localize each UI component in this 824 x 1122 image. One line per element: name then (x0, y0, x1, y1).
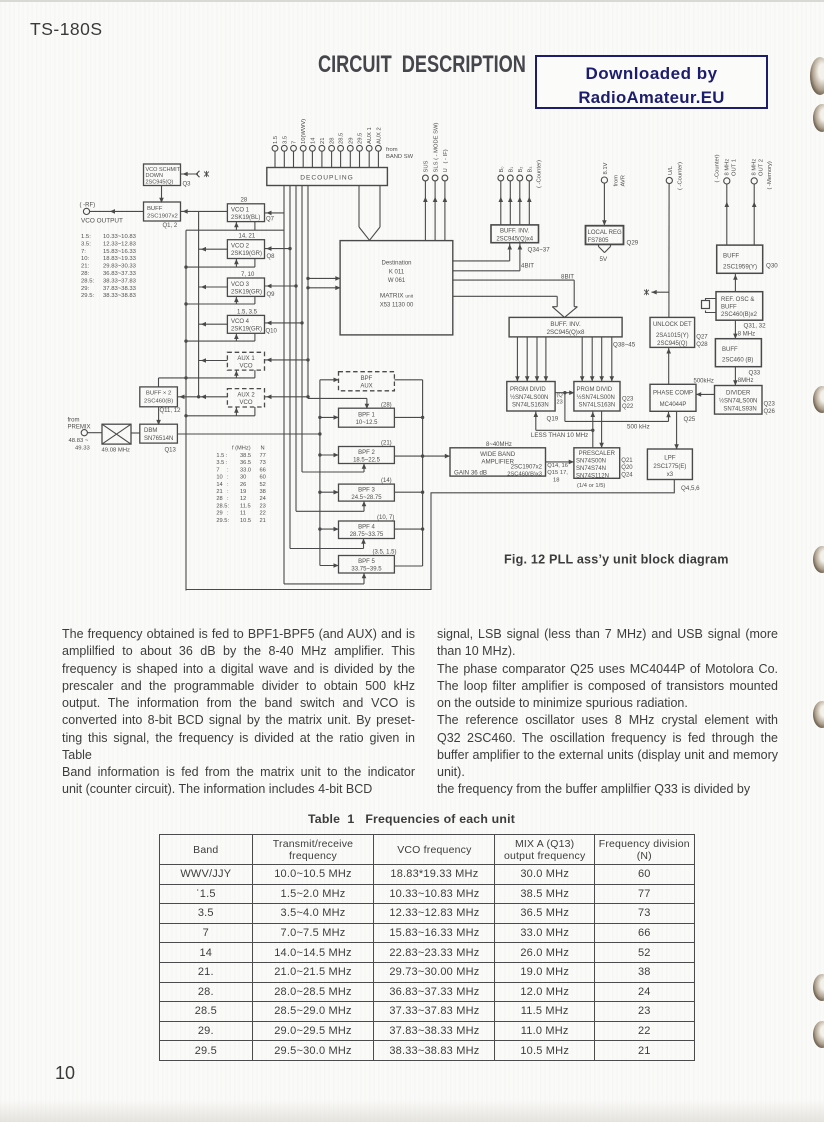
svg-text:UNLOCK DET: UNLOCK DET (653, 322, 692, 328)
svg-text:Destination: Destination (381, 261, 411, 267)
wire: buffer x2 to DBM (158, 407, 160, 424)
svg-text:2SC460(B): 2SC460(B) (144, 399, 173, 405)
wires: band select stubs into VCO right sides (265, 213, 309, 397)
svg-text:Q24: Q24 (621, 473, 633, 479)
mid frequency/N table (216, 446, 265, 524)
svg-text:X53 1130 00: X53 1130 00 (380, 303, 414, 309)
svg-text:8.1V: 8.1V (603, 162, 609, 174)
BPF 2 block (339, 447, 395, 464)
page number (55, 1063, 75, 1084)
DBM SN76514N block Q13 (140, 424, 178, 443)
svg-text:28.5: 28.5 (339, 133, 345, 144)
svg-text:2SK19(GR): 2SK19(GR) (231, 327, 262, 333)
svg-text:Q14, 16: Q14, 16 (547, 463, 568, 469)
svg-text:22: 22 (260, 511, 266, 517)
wires: buffer inverter to B0-B3 (501, 181, 530, 225)
svg-text::: : (227, 467, 229, 473)
wire: reference oscillator to buffer Q33 (734, 320, 736, 339)
svg-text:2SA1015(Y): 2SA1015(Y) (656, 333, 689, 339)
band input terminals (1.5 ... AUX 2) (272, 145, 381, 151)
svg-text:Q25: Q25 (684, 416, 696, 423)
VCO control voltage bus (from LPF) (186, 222, 284, 591)
svg-text:SN74LS93N: SN74LS93N (723, 407, 756, 413)
svg-text:28: 28 (241, 198, 248, 204)
svg-text:VCO 1: VCO 1 (231, 208, 250, 214)
VCO output bus to buffer (177, 211, 227, 396)
svg-text::: : (227, 511, 229, 517)
svg-text:½SN74LS00N: ½SN74LS00N (510, 394, 548, 401)
svg-text:from: from (386, 147, 398, 153)
svg-text:500 kHz: 500 kHz (627, 424, 650, 431)
svg-text:SN74S74N: SN74S74N (576, 466, 606, 472)
svg-text:Q26: Q26 (764, 409, 776, 415)
svg-text:Q29: Q29 (627, 240, 639, 247)
svg-text:BUFF: BUFF (147, 206, 163, 212)
prescaler block Q20,21,24 (574, 448, 620, 479)
svg-text:Q8: Q8 (267, 254, 276, 260)
wire: phase comparator to LPF (676, 411, 678, 449)
mode output terminals SUS / SLS / U (423, 175, 448, 181)
svg-text:28: 28 (216, 496, 222, 502)
svg-text:B₀: B₀ (499, 166, 505, 173)
VCO output terminal (-RF) (83, 208, 89, 214)
svg-text:2SC1959(Y): 2SC1959(Y) (723, 264, 757, 271)
svg-text:(10, 7): (10, 7) (377, 515, 394, 521)
svg-text:Q33: Q33 (749, 370, 761, 377)
svg-text:49.08 MHz: 49.08 MHz (102, 447, 131, 453)
svg-text:2SC460(B)x3: 2SC460(B)x3 (507, 472, 542, 478)
svg-text:5V: 5V (600, 256, 608, 263)
svg-text::: : (227, 482, 229, 488)
svg-text:18: 18 (553, 477, 559, 483)
svg-text:2SC945(Q)x4: 2SC945(Q)x4 (496, 236, 533, 242)
svg-text:36.5: 36.5 (240, 460, 251, 466)
svg-text:REF. OSC &: REF. OSC & (721, 297, 754, 303)
svg-text:DECOUPLING: DECOUPLING (300, 175, 354, 182)
svg-text:B₂: B₂ (518, 167, 524, 173)
svg-text:DOWN: DOWN (146, 173, 163, 179)
VCO schmitt down block Q3 (144, 164, 181, 186)
svg-text:AUX 1: AUX 1 (237, 356, 255, 362)
reference oscillator and buffer block Q31,32 (716, 292, 763, 321)
svg-text:SUS: SUS (424, 160, 430, 172)
svg-text:1.5: 1.5 (273, 136, 279, 144)
svg-text:Q19: Q19 (547, 416, 559, 423)
svg-text:7, 10: 7, 10 (241, 272, 255, 278)
svg-text:15.83~16.33: 15.83~16.33 (103, 249, 137, 255)
svg-text:DBM: DBM (144, 428, 157, 434)
VCO 1 block Q7 (227, 204, 264, 222)
svg-text:U ( - IF): U ( - IF) (443, 149, 449, 172)
svg-text:Q9: Q9 (267, 292, 276, 298)
wire: reference oscillator to buffer Q30 (734, 273, 736, 291)
svg-text:Q23: Q23 (764, 402, 776, 408)
wire: amplifier to prescaler (546, 461, 574, 463)
wire: premix to mixer (87, 432, 102, 434)
svg-text:PHASE COMP: PHASE COMP (653, 390, 693, 396)
svg-text:VCO: VCO (239, 364, 252, 370)
svg-text:10(WWV): 10(WWV) (301, 119, 307, 144)
svg-text:Q20: Q20 (621, 465, 633, 471)
svg-text::: : (227, 489, 229, 495)
program divider block Q22,23 (574, 382, 620, 412)
svg-text:2SC945(Q): 2SC945(Q) (146, 179, 174, 185)
buffer inverter Q34-37 block (491, 225, 539, 243)
divider block Q26 (715, 386, 763, 415)
svg-text:21: 21 (260, 518, 266, 524)
wire: VCO1 output to buffer (181, 210, 228, 212)
svg-text:VCO 3: VCO 3 (231, 282, 250, 288)
svg-text:Q7: Q7 (266, 217, 275, 223)
svg-text:( -RF): ( -RF) (80, 203, 96, 209)
svg-text:14: 14 (310, 137, 316, 144)
BPF output bus (394, 380, 422, 566)
svg-text:7: 7 (216, 467, 219, 473)
wires: matrix to mode terminals (425, 181, 445, 241)
svg-text:3.5 :: 3.5 : (216, 460, 227, 466)
svg-text:8 MHz: 8 MHz (738, 331, 755, 337)
svg-text:18.83~19.33: 18.83~19.33 (103, 256, 137, 262)
svg-text:23: 23 (260, 503, 266, 509)
wire: matrix 8bit bus to buffer inverter x8 (453, 280, 578, 317)
svg-text:f (MHz): f (MHz) (232, 446, 251, 452)
svg-text:7: 7 (292, 141, 298, 144)
svg-text:3.5: 3.5 (282, 136, 288, 144)
svg-text:2SK19(BL): 2SK19(BL) (231, 215, 260, 221)
svg-text:WIDE BAND: WIDE BAND (480, 451, 516, 458)
svg-text:28:: 28: (81, 271, 90, 277)
wire: divider 500kHz to phase comparator (696, 393, 715, 395)
svg-text:Q10: Q10 (266, 329, 278, 335)
svg-text:VCO OUTPUT: VCO OUTPUT (81, 218, 123, 225)
svg-text:2SC945(Q): 2SC945(Q) (657, 341, 687, 347)
VCO 2 block Q8 (227, 240, 264, 259)
header: model number TS-180S (30, 19, 103, 40)
5V output open arrow (599, 244, 611, 252)
svg-text:8BIT: 8BIT (561, 273, 574, 280)
svg-text:19: 19 (240, 489, 246, 495)
8.1V input terminal (601, 177, 607, 183)
buffer x2 Q11,12 block (140, 387, 178, 407)
svg-text:30: 30 (240, 475, 246, 481)
svg-text:500kHz: 500kHz (694, 378, 714, 384)
wire: buffer x2 top stub (159, 378, 187, 387)
svg-text::: : (227, 496, 229, 502)
page title (318, 51, 526, 79)
svg-text:36.83~37.33: 36.83~37.33 (103, 271, 137, 277)
svg-text:BPF 2: BPF 2 (358, 450, 375, 456)
watermark box: Downloaded by RadioAmateur.EU (535, 55, 768, 109)
svg-text:AVR: AVR (621, 175, 627, 187)
wire: unlock detector to U/L terminal with off-page branch (652, 184, 670, 318)
svg-text:28.5:: 28.5: (216, 503, 229, 509)
svg-text:10:: 10: (81, 256, 90, 262)
svg-text:LESS THAN 10 MHz: LESS THAN 10 MHz (531, 432, 588, 439)
BPF 3 block (339, 484, 395, 501)
svg-text:(Q: (Q (557, 393, 564, 399)
svg-text:66: 66 (260, 467, 266, 473)
band terminal labels (273, 119, 382, 144)
svg-text:Q15 17,: Q15 17, (547, 470, 568, 476)
svg-text:from: from (614, 175, 620, 187)
svg-text:½SN74LS00N: ½SN74LS00N (577, 394, 615, 401)
svg-text:38.33~38.83: 38.33~38.83 (103, 293, 137, 299)
svg-text:BPF 1: BPF 1 (358, 412, 375, 418)
svg-text:14: 14 (216, 482, 222, 488)
VCO frequency list (81, 234, 137, 299)
wire: schmitt to buffer Q1,2 (161, 186, 163, 203)
svg-text:Q13: Q13 (165, 447, 177, 453)
svg-text:( -Counter): ( -Counter) (537, 160, 543, 188)
svg-text:60: 60 (260, 475, 266, 481)
wires: band terminals to decoupling (275, 151, 378, 167)
svg-text:PRGM DIVID: PRGM DIVID (577, 387, 613, 393)
svg-text:29: 29 (348, 138, 354, 144)
svg-text:Q21: Q21 (621, 458, 633, 464)
svg-text:2SK19(GR): 2SK19(GR) (231, 251, 262, 257)
svg-text:29: 29 (216, 511, 222, 517)
svg-text:Q34~37: Q34~37 (528, 247, 551, 254)
VCO 4 block Q10 (227, 315, 264, 333)
body text right column (437, 626, 778, 799)
svg-text:SN74LS163N: SN74LS163N (512, 403, 549, 409)
scanner edge artifacts (punch hole shadows) (810, 57, 824, 95)
frequency table (159, 834, 695, 1061)
svg-text:1.5, 3.5: 1.5, 3.5 (237, 309, 258, 315)
svg-text:52: 52 (260, 482, 266, 488)
svg-text:VCO 4: VCO 4 (231, 319, 250, 325)
AUX 2 VCO block (option, dashed) (227, 389, 264, 407)
svg-text:Q38~45: Q38~45 (613, 342, 636, 349)
svg-text:2SC460 (B): 2SC460 (B) (722, 358, 753, 364)
svg-text:24: 24 (260, 496, 266, 502)
svg-text:K 011: K 011 (389, 270, 405, 276)
svg-text:AUX 2: AUX 2 (376, 127, 382, 144)
svg-text:Q3: Q3 (183, 182, 192, 188)
off-page marks (204, 171, 209, 177)
svg-text:SN76514N: SN76514N (144, 436, 173, 442)
svg-text:SN74LS163N: SN74LS163N (579, 403, 616, 409)
table heading (308, 812, 515, 826)
matrix unit X53-1130-00 (340, 241, 453, 335)
svg-text:2SC460(B)x2: 2SC460(B)x2 (721, 312, 758, 318)
svg-text:2SC1907x2: 2SC1907x2 (511, 465, 543, 471)
wires: prescaler to program dividers (536, 411, 602, 448)
junction dots (184, 247, 594, 531)
body text left column (62, 626, 415, 799)
phase comparator block Q25 (650, 384, 696, 411)
svg-text:PRGM DIVID: PRGM DIVID (510, 387, 546, 393)
wire: schmitt external input with off-page mark (181, 171, 200, 177)
svg-text:21: 21 (216, 489, 222, 495)
svg-text:Q1, 2: Q1, 2 (163, 223, 178, 229)
svg-text:Q4,5,6: Q4,5,6 (681, 485, 700, 492)
band select bus (decoupling outputs) (284, 186, 308, 584)
svg-text:11: 11 (240, 511, 246, 517)
svg-text:37.83~38.33: 37.83~38.33 (103, 286, 137, 292)
svg-text:BUFF × 2: BUFF × 2 (146, 391, 171, 397)
svg-text:(1/4 or 1/5): (1/4 or 1/5) (577, 483, 605, 489)
svg-text:GAIN 36 dB: GAIN 36 dB (454, 469, 487, 476)
mixer 49.08 MHz (102, 424, 131, 444)
svg-text:11.5: 11.5 (240, 503, 251, 509)
svg-text:2SC1907x2: 2SC1907x2 (147, 214, 178, 220)
svg-text:SN74S00N: SN74S00N (576, 459, 606, 465)
wire: buffer Q33 to divider (734, 367, 736, 386)
svg-text:4BIT: 4BIT (521, 263, 534, 270)
premix input terminal (81, 430, 87, 436)
svg-text:BUFF: BUFF (721, 304, 737, 310)
svg-text:Q27: Q27 (696, 335, 708, 341)
svg-text:PREMIX: PREMIX (68, 425, 91, 431)
wide band amplifier block Q14-18 (450, 448, 546, 476)
svg-text:AMPLIFIER: AMPLIFIER (481, 458, 514, 465)
svg-text:Q23: Q23 (622, 397, 634, 403)
wires: buffer Q30 to output terminals (727, 184, 754, 245)
svg-text:29.5: 29.5 (358, 133, 364, 144)
svg-text:BPF 5: BPF 5 (358, 559, 375, 565)
svg-text:FS7805: FS7805 (588, 238, 610, 244)
svg-text:18.5~22.5: 18.5~22.5 (353, 457, 381, 463)
crystal element 8 MHz (702, 299, 717, 313)
8 MHz OUT 2 terminal (751, 178, 757, 184)
svg-text:3.5:: 3.5: (81, 241, 91, 247)
svg-text:MATRIX unit: MATRIX unit (380, 293, 414, 300)
svg-text:24.5~28.75: 24.5~28.75 (351, 495, 382, 501)
8 MHz OUT 1 terminal (724, 178, 730, 184)
svg-text:AUX: AUX (360, 383, 372, 389)
svg-text:BUFF. INV.: BUFF. INV. (500, 229, 530, 235)
wires: buffer inverter to program dividers (8 lines) (517, 337, 611, 382)
svg-text:33.75~39.5: 33.75~39.5 (351, 567, 382, 573)
top edge scan line (0, 0, 824, 2)
svg-text:10: 10 (216, 475, 222, 481)
wire: BPF bus to wide band amplifier (394, 455, 450, 457)
BPF 5 block (339, 556, 395, 574)
wire: LPF output return to VCO control bus (186, 480, 674, 590)
svg-text:10.33~10.83: 10.33~10.83 (103, 234, 137, 240)
wire: 8.1V to local regulator (603, 183, 605, 226)
svg-text:49.33: 49.33 (75, 445, 90, 451)
wires: band select to matrix (308, 278, 340, 287)
svg-text:38: 38 (260, 489, 266, 495)
svg-text:29:: 29: (81, 286, 90, 292)
svg-text:26: 26 (240, 482, 246, 488)
svg-text:28.75~33.75: 28.75~33.75 (350, 532, 384, 538)
svg-text:8~40MHz: 8~40MHz (486, 442, 512, 448)
wire: DBM output to BPF input bus (177, 433, 320, 435)
BPF 4 block (339, 521, 395, 539)
svg-text:OUT 1: OUT 1 (731, 159, 737, 176)
wire: decoupling to matrix funnel (359, 186, 380, 241)
svg-text:8 MHz: 8 MHz (724, 159, 730, 176)
svg-text:21:: 21: (81, 264, 90, 270)
svg-text:(28): (28) (381, 402, 392, 408)
svg-text:SLS ( - MODE SW): SLS ( - MODE SW) (433, 123, 439, 173)
wires: band select entries into BPF1-BPF5 (284, 398, 367, 584)
svg-text:29.83~30.33: 29.83~30.33 (103, 264, 137, 270)
svg-text:33.0: 33.0 (240, 467, 251, 473)
svg-text:BPF 4: BPF 4 (358, 525, 375, 531)
svg-text:14, 21: 14, 21 (239, 234, 256, 240)
svg-text::: : (227, 475, 229, 481)
svg-text:W 061: W 061 (388, 278, 406, 284)
svg-text:Q30: Q30 (766, 263, 778, 270)
svg-text:AUX 2: AUX 2 (237, 393, 255, 399)
buffer Q30 block (717, 245, 763, 273)
AUX 1 VCO block (option, dashed) (227, 352, 264, 370)
svg-text:Q28: Q28 (696, 342, 708, 348)
VCO 3 block Q9 (227, 278, 264, 296)
buffer Q1,2 block (144, 202, 181, 221)
svg-text:73: 73 (260, 460, 266, 466)
BCD output terminals B0-B3 (498, 175, 532, 181)
svg-text:1.5 :: 1.5 : (216, 453, 227, 459)
svg-text:AUX 1: AUX 1 (367, 127, 373, 144)
svg-text:28.5:: 28.5: (81, 278, 94, 284)
svg-text:N: N (261, 446, 265, 452)
decoupling block (267, 168, 388, 186)
svg-text:VCO 2: VCO 2 (231, 244, 250, 250)
svg-text:( -Counter): ( -Counter) (715, 154, 721, 182)
arrowheads (110, 172, 757, 579)
svg-text:from: from (68, 418, 80, 424)
svg-text:LPF: LPF (664, 454, 676, 461)
svg-text:( -Counter): ( -Counter) (677, 162, 683, 190)
svg-text:B₁: B₁ (509, 167, 515, 173)
svg-text:38.33~37.83: 38.33~37.83 (103, 278, 137, 284)
svg-text:PRESCALER: PRESCALER (579, 451, 616, 457)
svg-text:BUFF: BUFF (723, 253, 739, 260)
bottom scan shading (0, 1100, 824, 1122)
buffer Q33 block (715, 339, 761, 367)
svg-text:10~12.5: 10~12.5 (356, 420, 379, 426)
svg-text:Fig. 12 PLL ass’y unit block: Fig. 12 PLL ass’y unit block diagram (504, 553, 729, 567)
wire: divider stage 1 to stage 2 and phase comparator (555, 393, 668, 422)
BPF input bus (320, 380, 339, 566)
svg-text:23: 23 (557, 400, 563, 406)
wire: buffer to RF output (90, 210, 144, 212)
svg-text:U/L: U/L (668, 165, 674, 175)
program divider block Q19 (507, 382, 555, 412)
svg-text:BAND SW: BAND SW (386, 154, 414, 160)
wires: matrix to buffer-inverter 4bit (453, 243, 520, 271)
wire: unlock detector to phase comparator (668, 347, 670, 384)
unlock detector block Q27,28 (650, 317, 695, 347)
svg-text:(14): (14) (381, 478, 392, 484)
svg-text:2SC1775(E): 2SC1775(E) (653, 464, 686, 470)
svg-text:29.5:: 29.5: (216, 518, 229, 524)
svg-text:1.5:: 1.5: (81, 234, 91, 240)
buffer inverter Q38-45 block (509, 317, 622, 337)
svg-text:28: 28 (330, 138, 336, 144)
LPF block Q4,5,6 (647, 449, 692, 480)
svg-text:2SK19(GR): 2SK19(GR) (231, 289, 262, 295)
svg-text:38.5: 38.5 (240, 453, 251, 459)
svg-text:2SC945(Q)x8: 2SC945(Q)x8 (547, 329, 585, 336)
svg-text:DIVIDER: DIVIDER (726, 391, 751, 397)
svg-text:Q22: Q22 (622, 404, 634, 410)
svg-text:Q11, 12: Q11, 12 (160, 408, 182, 414)
svg-text:Q31, 32: Q31, 32 (744, 323, 767, 330)
svg-text:7:: 7: (81, 249, 86, 255)
local regulator block Q29 (586, 226, 624, 245)
svg-text:(21): (21) (381, 441, 392, 447)
svg-text:BPF 3: BPF 3 (358, 488, 375, 494)
svg-text:SN74S112N: SN74S112N (576, 473, 609, 479)
svg-text:½SN74LS00N: ½SN74LS00N (719, 398, 757, 405)
svg-text:BUFF. INV.: BUFF. INV. (550, 321, 581, 328)
